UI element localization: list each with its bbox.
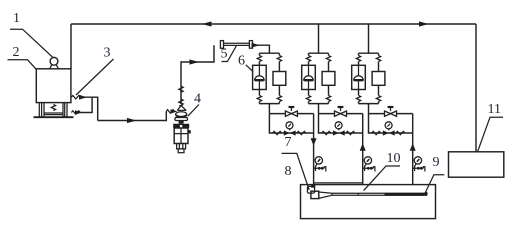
filter 6 of branch 3 — [352, 65, 366, 89]
lance tip 9 — [424, 192, 427, 196]
branch 1 wire to orifice — [278, 62, 280, 72]
nozzle body — [311, 191, 319, 198]
flow meter 5 left flange — [220, 41, 223, 49]
arrow down on pipe 1 — [311, 138, 317, 146]
chamber inner rail — [314, 182, 363, 184]
flow meter 5 right flange — [249, 41, 252, 49]
loop 3 left zigzag — [372, 131, 381, 134]
branch 3 left lower hose break — [358, 90, 360, 96]
svg-text:2: 2 — [13, 45, 20, 60]
filter 4 shoulder band — [173, 124, 189, 128]
wire top return line — [71, 23, 476, 25]
lance tube dark section — [385, 193, 425, 196]
label 11 leader — [478, 117, 503, 151]
filter 4 bowl — [176, 112, 187, 117]
branch 3 split header — [359, 53, 379, 55]
pressure gauge on pipe 2 — [364, 157, 371, 164]
feed pipe 2 to chamber — [362, 114, 364, 185]
gauge of loop 3 — [385, 122, 392, 129]
label 10 leader — [364, 166, 400, 191]
wire lower outlet riser — [80, 97, 92, 112]
loop 3 right zigzag — [396, 131, 405, 134]
branch 2 wire to loop — [318, 104, 320, 114]
loop 1 left zigzag — [273, 131, 282, 134]
branch 1 right hose break — [277, 55, 281, 61]
label 6 leader — [246, 65, 253, 72]
base ground line — [34, 116, 74, 118]
arrow after filter 4 — [190, 59, 200, 64]
svg-text:8: 8 — [285, 164, 292, 179]
pump mount skirt — [50, 65, 59, 69]
filter 4 disc — [175, 118, 188, 121]
branch 1 split header — [259, 53, 279, 55]
nozzle inlet blob — [311, 185, 315, 188]
loop 2 right zigzag — [346, 131, 355, 134]
branch 2 wire to orifice — [328, 62, 330, 72]
filter 6 of branch 2 — [302, 65, 316, 89]
branch 1 wire to loop — [268, 104, 270, 114]
branch 2 merge header — [309, 102, 329, 104]
needle valve 7 of loop 1 — [284, 130, 296, 135]
shutoff valve 3 (top, with handle) — [385, 111, 397, 116]
loop 1 right zigzag — [297, 131, 306, 134]
feed pipe 3 to chamber — [412, 114, 414, 185]
strainer zigzag in stand — [51, 104, 55, 110]
branch 2 wire to filter — [308, 62, 310, 66]
arrow flow left on top line — [202, 21, 212, 26]
wire return drop to tank — [70, 24, 72, 69]
branch 1 left lower hose break — [258, 90, 260, 96]
branch 3 left hose break — [356, 55, 360, 61]
filter 4 side nub — [188, 130, 191, 133]
gauge cock on pipe 2 — [363, 164, 375, 172]
arrow on supply run — [127, 118, 137, 123]
wire drop to analyzer 11 — [475, 24, 477, 152]
branch 2 right lower hose break — [328, 85, 330, 95]
gauge cock on pipe 1 — [314, 164, 326, 172]
branch 3 merge header — [359, 102, 379, 104]
arrow after meter 5 — [252, 43, 260, 48]
wire riser from filter 4 — [181, 45, 214, 104]
hose break lower on riser — [179, 99, 183, 105]
label 3 leader — [76, 59, 114, 95]
pump motor 1 (circle) — [50, 57, 58, 65]
gauge of loop 2 — [335, 122, 342, 129]
branch 1 merge header — [259, 102, 279, 104]
branch 2 left hose break — [306, 55, 310, 61]
inlet zigzag into filter 4 — [166, 110, 174, 113]
label 8 leader — [282, 153, 310, 190]
branch 3 right hose break — [376, 55, 380, 61]
orifice block of branch 2 — [322, 72, 335, 86]
branch 1 left hose break — [257, 55, 261, 61]
svg-text:5: 5 — [221, 47, 228, 62]
shutoff valve 2 (top, with handle) — [335, 111, 347, 116]
svg-text:3: 3 — [104, 46, 111, 61]
lower outlet zigzag — [71, 111, 80, 114]
metering loop 1 frame — [269, 114, 313, 133]
metering loop 2 frame — [319, 114, 363, 133]
feed pipe 1 to chamber — [313, 114, 315, 185]
valve 3 outlet zigzag upper — [71, 96, 80, 99]
pressure gauge on pipe 3 — [414, 157, 421, 164]
loop 2 left zigzag — [322, 131, 331, 134]
tank stand box — [44, 103, 63, 117]
gauge of loop 1 — [286, 122, 293, 129]
branch 2 left lower hose break — [308, 90, 310, 96]
arrow up on pipe 3 — [410, 143, 416, 151]
wire supply run to filter 4 — [98, 111, 167, 120]
arrow into filter 4 — [171, 109, 178, 113]
shutoff valve 1 (top, with handle) — [285, 111, 297, 116]
svg-text:1: 1 — [13, 11, 20, 26]
label 5 leader — [221, 46, 236, 62]
metering loop 3 frame — [369, 114, 413, 133]
lance tube 10 — [332, 193, 425, 195]
branch 3 feed wire — [368, 24, 370, 53]
svg-text:6: 6 — [238, 54, 245, 69]
filter 4 neck — [179, 121, 184, 124]
nozzle mount 8 — [307, 186, 314, 193]
arrow up on pipe 2 — [360, 143, 366, 151]
nozzle cone — [319, 192, 332, 198]
needle valve 7 of loop 3 — [383, 130, 395, 135]
wire meter outlet to branch 1 — [253, 45, 270, 53]
svg-text:7: 7 — [285, 135, 292, 150]
label 9 leader — [426, 175, 445, 192]
arrow flow right on top line — [419, 21, 429, 26]
filter 4 body — [174, 128, 188, 144]
orifice block of branch 3 — [372, 72, 385, 86]
label 1 leader — [10, 29, 52, 57]
tank stand legs — [39, 103, 67, 117]
gauge cock on pipe 3 — [413, 164, 425, 172]
branch 2 split header — [309, 53, 329, 55]
branch 3 wire to orifice — [378, 62, 380, 72]
branch 3 right lower hose break — [378, 85, 380, 95]
test chamber box — [301, 185, 436, 219]
svg-text:4: 4 — [194, 92, 201, 107]
svg-text:10: 10 — [387, 151, 401, 166]
needle valve 7 of loop 2 — [333, 130, 345, 135]
filter 4 funnel — [177, 106, 186, 111]
svg-text:9: 9 — [433, 155, 440, 170]
orifice block of branch 1 — [273, 72, 286, 86]
wire upper outlet — [80, 97, 97, 120]
label 4 leader — [188, 105, 199, 117]
tank 2 body — [36, 69, 71, 103]
hose break upper on riser — [179, 86, 183, 92]
pressure gauge on pipe 1 — [315, 157, 322, 164]
branch 3 wire to loop — [368, 104, 370, 114]
flow meter 5 tube — [224, 43, 250, 45]
branch 2 feed wire — [318, 24, 320, 53]
analyzer 11 box — [449, 152, 504, 177]
branch 1 right lower hose break — [278, 85, 280, 95]
filter 6 of branch 1 — [253, 65, 267, 89]
arrow at lower outlet — [75, 110, 82, 114]
label 2 leader — [8, 60, 37, 70]
filter 4 drain bolt — [177, 144, 186, 149]
svg-text:11: 11 — [488, 102, 501, 117]
branch 2 right hose break — [326, 55, 330, 61]
branch 1 wire to filter — [258, 62, 260, 66]
branch 3 wire to filter — [358, 62, 360, 66]
arrow at valve 3 — [79, 95, 87, 100]
